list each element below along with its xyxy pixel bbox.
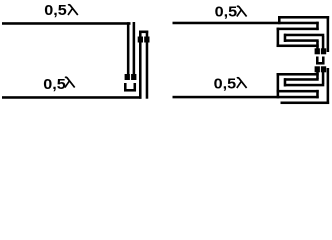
wire: top meander stub element to H1 [278,16,281,24]
wire: element right corner down to H3 [316,22,319,30]
wire: stem H4 to upper-right terminal [322,36,325,49]
wire: left vertical B parallel wire [133,22,136,74]
wire: feed cup bottom bar [316,62,325,65]
wire: top meander run H6 [277,45,319,48]
wire: bottom meander run H1' [281,102,330,105]
wire: top meander left wall H3 to H6 [277,28,280,47]
wire: bottom meander left wall H6' down into element [277,73,280,98]
wire: stem lower-right terminal to H4' [322,72,325,85]
node: terminal square on D [144,37,149,43]
svg-text:0,5: 0,5 [43,76,66,92]
wire: left antenna top element 0.5 lambda horizontal [2,22,131,25]
wire: stem lower-left terminal to H5' [316,72,319,80]
wire: top meander run H1 [278,16,329,19]
wire: bottom meander run H6' [277,73,319,76]
wire: bottom meander run H3' [277,90,319,93]
wire: left vertical C from bottom element up [139,31,142,99]
wire: top meander stub H4 to H5 [284,34,287,42]
wire: stem H5 to upper-left terminal [316,41,319,49]
wire: top meander run H3 [277,28,319,31]
node: upper-right terminal square [321,48,326,54]
wire: element right corner up to H3' [316,90,319,98]
wire: left antenna bottom element 0.5 lambda horizontal [2,96,142,99]
wire: left vertical A from top element down [127,22,130,74]
wire: cup connector left wall [124,83,127,92]
wire: top meander outer right wall down to upper-right terminal [327,16,330,52]
wire: feed cup left wall [316,57,319,65]
svg-text:0,5: 0,5 [215,4,238,20]
node: upper-left terminal square [315,48,320,54]
wire: right antenna bottom element 0.5 lambda horizontal [173,96,319,99]
node: terminal square on B [131,74,136,80]
node: lower-right terminal square [321,66,326,72]
wire: top meander run H4 [284,34,324,37]
wire: right antenna top element 0.5 lambda horizontal [173,22,319,25]
wire: cup connector bottom bar [124,89,136,92]
svg-text:0,5: 0,5 [214,76,237,92]
node: terminal square on C [138,37,143,43]
wire: cup connector right wall [134,83,137,92]
wire: bottom meander stub H5' to H4' [284,78,287,86]
svg-text:0,5: 0,5 [44,3,67,19]
wire: bottom meander run H5' [284,78,319,81]
wire: left vertical D parallel wire [146,31,149,99]
wire: feed cup right wall [322,57,325,65]
node: lower-left terminal square [315,66,320,72]
wire: top meander run H5 [284,39,319,42]
wire: bottom meander run H4' [284,84,324,87]
wire: bottom meander outer right wall from lower-right terminal [327,68,330,104]
node: terminal square on A [125,74,130,80]
wire: top bar joining C and D [139,31,148,34]
